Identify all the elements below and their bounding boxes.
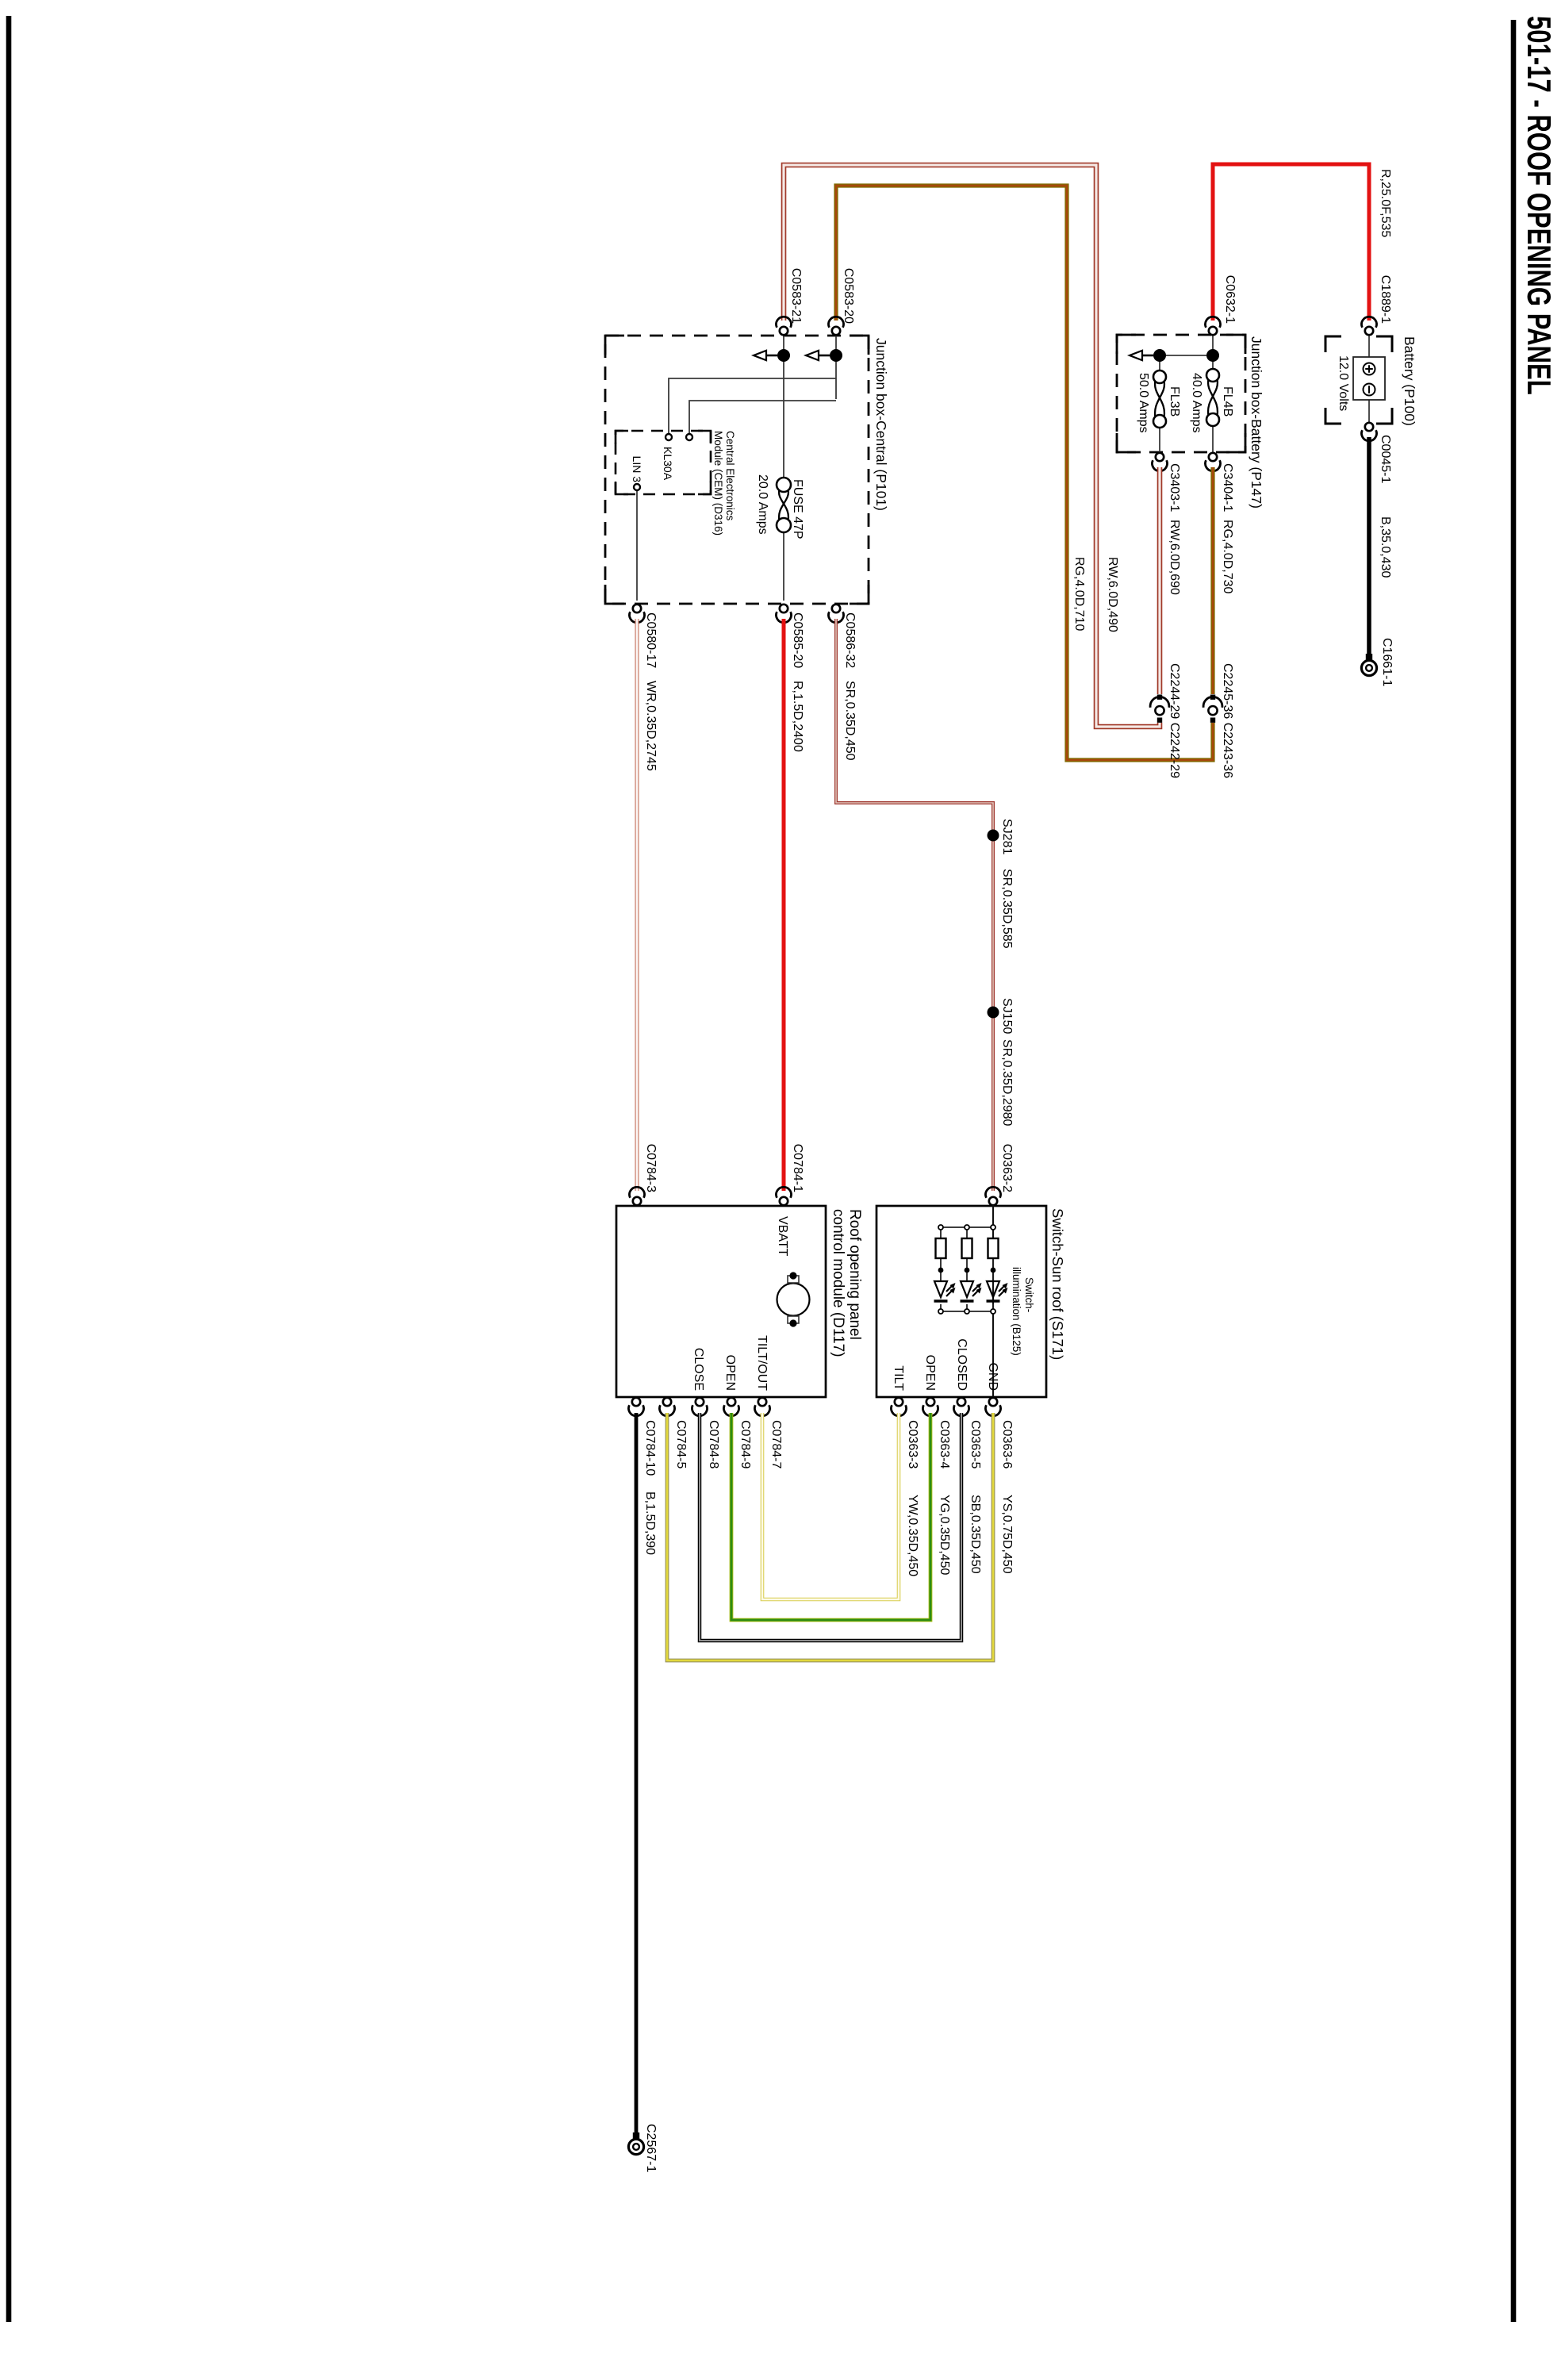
svg-text:Switch-: Switch- xyxy=(1023,1277,1035,1312)
svg-text:illumination (B125): illumination (B125) xyxy=(1011,1267,1022,1356)
svg-text:SB,0.35D,450: SB,0.35D,450 xyxy=(969,1495,982,1574)
svg-text:SR,0.35D,450: SR,0.35D,450 xyxy=(843,681,857,761)
inline connector C2244-29 / C2242-29 xyxy=(1150,695,1169,723)
svg-text:YG,0.35D,450: YG,0.35D,450 xyxy=(938,1495,951,1576)
svg-text:C0632-1: C0632-1 xyxy=(1223,275,1237,324)
svg-text:C0585-20: C0585-20 xyxy=(791,612,804,668)
connector C0784-5 xyxy=(660,1398,675,1416)
junction on FL4B feed xyxy=(1206,349,1219,362)
svg-text:Module (CEM) (D316): Module (CEM) (D316) xyxy=(712,431,724,535)
ground ring terminal C1661-1 xyxy=(1361,654,1376,676)
connector C0580-17 xyxy=(630,605,645,623)
svg-text:C0784-10: C0784-10 xyxy=(643,1420,657,1476)
svg-text:C0363-3: C0363-3 xyxy=(906,1420,919,1468)
svg-text:YW,0.35D,450: YW,0.35D,450 xyxy=(906,1495,919,1576)
svg-text:20.0 Amps: 20.0 Amps xyxy=(756,474,769,535)
continuation arrow to other circuits xyxy=(1130,351,1153,360)
svg-text:B,1.5D,390: B,1.5D,390 xyxy=(643,1491,657,1555)
connector C0784-3 xyxy=(630,1187,645,1205)
svg-text:50.0 Amps: 50.0 Amps xyxy=(1137,373,1150,433)
svg-text:Battery (P100): Battery (P100) xyxy=(1402,336,1417,426)
svg-text:C0363-5: C0363-5 xyxy=(969,1420,982,1468)
svg-text:TILT: TILT xyxy=(892,1365,905,1391)
svg-text:C1661-1: C1661-1 xyxy=(1380,638,1394,686)
svg-text:C0784-9: C0784-9 xyxy=(738,1420,752,1468)
svg-text:KL30A: KL30A xyxy=(662,447,674,481)
wire RG,4.0D,710 red-green xyxy=(836,186,1213,760)
svg-text:C2245-36 C2243-36: C2245-36 C2243-36 xyxy=(1221,663,1234,778)
connector C0363-2 xyxy=(986,1187,1001,1205)
svg-text:501-17 - ROOF OPENING PANEL: 501-17 - ROOF OPENING PANEL xyxy=(1521,16,1558,395)
wire R,1.5D,2400 red xyxy=(782,619,786,1191)
S171 internal gnd line xyxy=(992,1205,994,1398)
connector C0586-32 xyxy=(829,605,844,623)
svg-text:Roof opening panel: Roof opening panel xyxy=(846,1209,863,1340)
svg-text:FL4B: FL4B xyxy=(1221,386,1234,416)
svg-text:VBATT: VBATT xyxy=(776,1216,789,1257)
P147 internal wires xyxy=(1160,335,1213,453)
svg-text:B,35.0,430: B,35.0,430 xyxy=(1379,516,1392,578)
connector C3404-1 xyxy=(1206,453,1221,471)
connector C0784-10 xyxy=(629,1398,644,1416)
svg-text:OPEN: OPEN xyxy=(723,1355,737,1391)
svg-text:Junction box-Battery (P147): Junction box-Battery (P147) xyxy=(1249,336,1264,509)
wire SR slate-red xyxy=(836,619,993,1191)
svg-text:FUSE 47P: FUSE 47P xyxy=(791,479,804,539)
connector C0583-21 xyxy=(777,317,792,335)
svg-text:GND: GND xyxy=(986,1362,999,1391)
svg-text:SJ150: SJ150 xyxy=(1000,998,1014,1034)
svg-text:RG,4.0D,710: RG,4.0D,710 xyxy=(1072,557,1086,631)
svg-text:C0363-6: C0363-6 xyxy=(1000,1420,1014,1468)
svg-text:R,25.0F,535: R,25.0F,535 xyxy=(1379,169,1392,237)
svg-text:RW,6.0D,690: RW,6.0D,690 xyxy=(1168,520,1181,595)
battery P100 box xyxy=(1353,357,1385,400)
connector C0583-20 xyxy=(829,317,844,335)
LED 3 xyxy=(934,1268,956,1301)
Roof opening panel control module (D117) box xyxy=(616,1206,826,1397)
svg-text:C3404-1: C3404-1 xyxy=(1221,463,1234,512)
battery P100 internal link xyxy=(1368,331,1370,427)
continuation arrow to other circuits xyxy=(806,351,830,360)
svg-text:R,1.5D,2400: R,1.5D,2400 xyxy=(791,681,804,752)
wire WR,0.35D,2745 white-red xyxy=(635,619,639,1191)
svg-text:C0583-20: C0583-20 xyxy=(842,268,855,324)
svg-text:CLOSE: CLOSE xyxy=(692,1348,705,1391)
svg-text:12.0 Volts: 12.0 Volts xyxy=(1337,355,1350,411)
svg-text:OPEN: OPEN xyxy=(923,1355,937,1391)
svg-text:C0583-21: C0583-21 xyxy=(789,268,803,324)
splice SJ150 xyxy=(988,1007,999,1019)
inline connector C2245-36 / C2243-36 xyxy=(1203,695,1222,723)
svg-text:LIN 3: LIN 3 xyxy=(631,456,643,483)
svg-text:WR,0.35D,2745: WR,0.35D,2745 xyxy=(644,681,658,771)
connector C0045-1 xyxy=(1362,423,1377,441)
battery minus terminal xyxy=(1364,384,1375,396)
LED 1 xyxy=(987,1268,1008,1301)
splice SJ281 xyxy=(988,830,999,842)
connector C3403-1 xyxy=(1153,453,1168,471)
connector C0784-1 xyxy=(776,1187,791,1205)
wire YS,0.75D,450 yellow-slate xyxy=(667,1413,993,1660)
fusible link FL3B xyxy=(1153,370,1166,428)
connector C0585-20 xyxy=(777,605,792,623)
connector C0363-5 xyxy=(954,1398,969,1416)
fusible link FL4B xyxy=(1206,369,1219,426)
junction on FL3B feed xyxy=(1153,349,1166,362)
LED 2 xyxy=(961,1268,982,1301)
wire RW,6.0D,690 red-white xyxy=(1157,467,1163,694)
wire R,25.0F,535 red xyxy=(1213,164,1369,321)
connector C0363-3 xyxy=(892,1398,907,1416)
svg-text:YS,0.75D,450: YS,0.75D,450 xyxy=(1000,1495,1014,1574)
svg-text:FL3B: FL3B xyxy=(1168,386,1181,416)
title rule xyxy=(1511,20,1517,2322)
illumination resistor 2 xyxy=(962,1238,972,1258)
Switch-Sun roof (S171) box xyxy=(876,1206,1046,1397)
svg-text:C0363-2: C0363-2 xyxy=(1000,1144,1014,1192)
illumination resistor 3 xyxy=(936,1238,946,1258)
svg-text:RW,6.0D,490: RW,6.0D,490 xyxy=(1106,557,1119,632)
svg-text:TILT/OUT: TILT/OUT xyxy=(755,1335,769,1391)
illumination rails xyxy=(941,1227,993,1311)
svg-text:C0784-5: C0784-5 xyxy=(674,1420,688,1468)
svg-text:Junction box-Central (P101): Junction box-Central (P101) xyxy=(873,338,889,511)
P101 internal wires xyxy=(637,335,836,601)
connector C0632-1 xyxy=(1206,317,1221,335)
svg-text:SR,0.35D,585: SR,0.35D,585 xyxy=(1000,869,1014,949)
connector C1889-1 xyxy=(1362,317,1377,335)
wire YG,0.35D,450 yellow-green xyxy=(731,1413,930,1620)
wire YW,0.35D,450 yellow-white xyxy=(762,1413,899,1599)
connector C0784-8 xyxy=(692,1398,708,1416)
fusible link FUSE 47P xyxy=(777,478,791,532)
svg-text:CLOSED: CLOSED xyxy=(955,1338,969,1391)
svg-text:SR,0.35D,2980: SR,0.35D,2980 xyxy=(1000,1039,1014,1127)
svg-text:C2567-1: C2567-1 xyxy=(644,2124,658,2172)
motor M in D117 xyxy=(777,1272,810,1326)
LIN 3 terminal xyxy=(634,484,640,490)
svg-text:C0045-1: C0045-1 xyxy=(1379,435,1392,483)
svg-text:RG,4.0D,730: RG,4.0D,730 xyxy=(1221,520,1234,593)
connector C0363-6 xyxy=(986,1398,1001,1416)
svg-text:C0580-17: C0580-17 xyxy=(644,612,658,668)
connector C0784-7 xyxy=(755,1398,770,1416)
svg-text:C3403-1: C3403-1 xyxy=(1168,463,1181,512)
junction box-Central (P101) dashed outline xyxy=(605,336,869,604)
svg-text:C0784-7: C0784-7 xyxy=(769,1420,783,1468)
svg-text:C0784-1: C0784-1 xyxy=(791,1144,804,1192)
svg-text:Switch-Sun roof (S171): Switch-Sun roof (S171) xyxy=(1049,1208,1066,1360)
svg-text:Central Electronics: Central Electronics xyxy=(724,431,736,521)
continuation arrow to other circuits xyxy=(754,351,777,360)
battery P100 brackets xyxy=(1325,336,1392,424)
Central Electronics Module (CEM) (D316) dashed outline xyxy=(616,431,711,494)
wire RW,6.0D,490 red-white xyxy=(784,165,1160,727)
svg-text:C0784-3: C0784-3 xyxy=(644,1144,658,1192)
wire B,35.0,430 black xyxy=(1367,437,1371,654)
svg-text:C0784-8: C0784-8 xyxy=(707,1420,720,1468)
svg-text:C0586-32: C0586-32 xyxy=(843,612,857,668)
svg-text:SJ281: SJ281 xyxy=(1000,819,1014,854)
illumination resistor 1 xyxy=(988,1238,999,1258)
junction on KL30A feed xyxy=(830,349,842,362)
bottom rule xyxy=(6,16,12,2322)
junction on fuse 47P feed xyxy=(777,349,790,362)
connector C0784-9 xyxy=(724,1398,739,1416)
junction box-Battery (P147) dashed outline xyxy=(1117,335,1245,452)
wire SB,0.35D,450 slate-black xyxy=(700,1413,961,1641)
svg-text:C2244-29 C2242-29: C2244-29 C2242-29 xyxy=(1168,663,1181,778)
svg-text:40.0 Amps: 40.0 Amps xyxy=(1190,373,1203,433)
battery plus terminal xyxy=(1364,363,1375,375)
wire RG,4.0D,730 red-green xyxy=(1210,467,1214,694)
CEM terminal KL30A xyxy=(666,434,672,440)
svg-text:C1889-1: C1889-1 xyxy=(1379,275,1392,324)
ground ring terminal C2567-1 xyxy=(628,2132,643,2155)
wire B,1.5D,390 black xyxy=(635,1413,639,2132)
CEM terminal upper xyxy=(686,434,692,440)
svg-text:control module (D117): control module (D117) xyxy=(830,1209,846,1357)
connector C0363-4 xyxy=(923,1398,938,1416)
svg-text:C0363-4: C0363-4 xyxy=(938,1420,951,1468)
